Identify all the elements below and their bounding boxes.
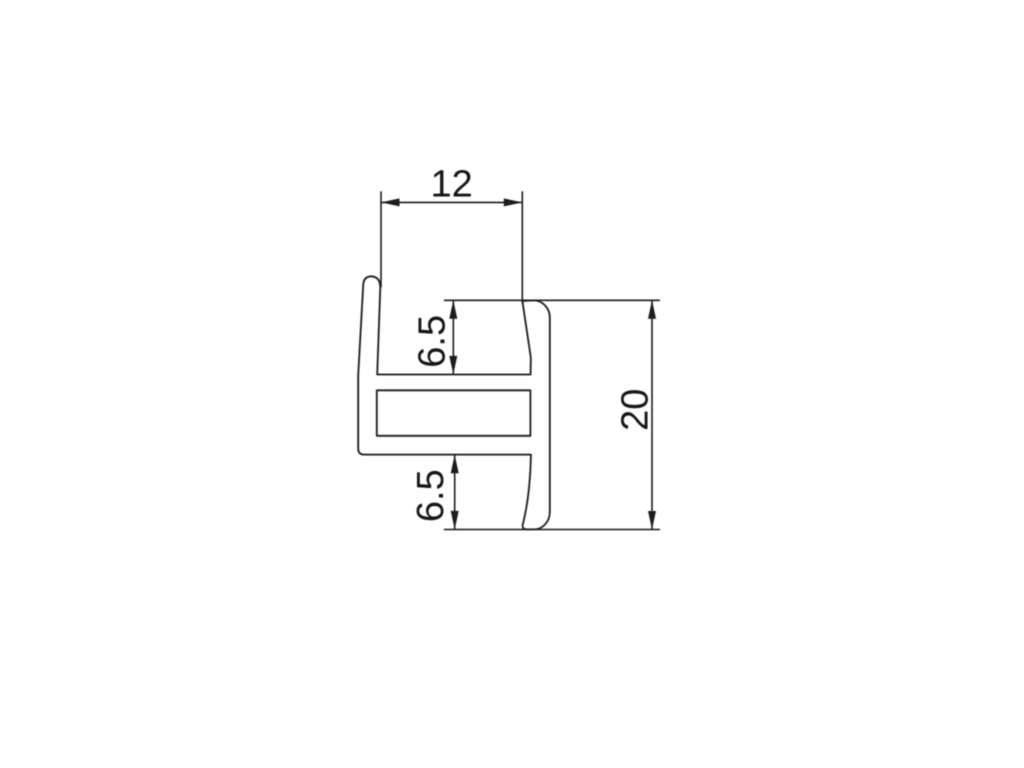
svg-text:6.5: 6.5 (412, 315, 454, 368)
svg-text:12: 12 (430, 164, 472, 206)
svg-text:20: 20 (615, 389, 657, 431)
svg-text:6.5: 6.5 (410, 469, 452, 522)
